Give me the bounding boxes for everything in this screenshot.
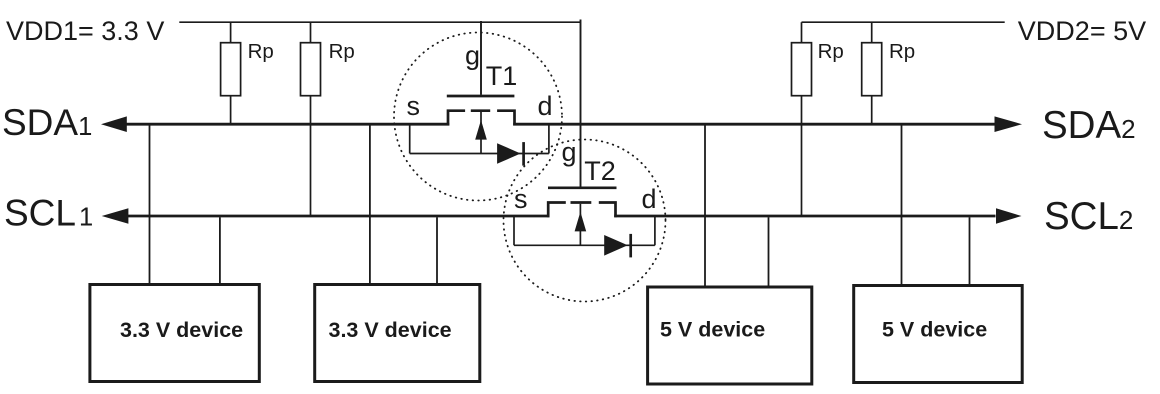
device box 4 (5 V device) (854, 286, 1023, 383)
svg-text:T2: T2 (584, 156, 616, 186)
wire SCL1 to device box 1 (219, 217, 221, 284)
svg-text:SDA2: SDA2 (1042, 104, 1136, 147)
wire VDD2 to resistor R4 top (871, 22, 873, 43)
svg-text:d: d (642, 184, 657, 214)
arrow SDA1 (left) (101, 116, 127, 132)
svg-text:d: d (538, 91, 553, 121)
wire R4 bottom to SDA2 (871, 96, 873, 125)
wire VDD1 rail (179, 21, 581, 23)
svg-text:VDD2= 5V: VDD2= 5V (1018, 16, 1146, 46)
wire SDA1 to device box 2 (369, 126, 371, 285)
device box 3 (5 V device) (648, 287, 812, 384)
diode D1 (T1 body diode) (497, 143, 520, 164)
svg-text:3.3 V device: 3.3 V device (120, 318, 243, 342)
wire VDD2 rail (802, 21, 1005, 23)
device box 1 (3.3 V device) (90, 285, 259, 382)
arrow SCL1 (left) (102, 208, 129, 224)
svg-text:5 V device: 5 V device (660, 318, 765, 342)
wire R2 bottom through SDA1 to SCL1 (310, 96, 312, 216)
wire T1 body left vertical (409, 124, 411, 153)
wire T1 gate to VDD1 rail (480, 21, 482, 95)
arrow SDA2 (right) (995, 116, 1023, 132)
wire VDD2 to resistor R3 top (801, 22, 803, 43)
transistor T2 substrate arrow (575, 212, 587, 232)
resistor Rp (R1, SDA1 pull-up) (221, 43, 241, 96)
wire SCL bus left segment (128, 215, 550, 218)
svg-text:g: g (562, 137, 577, 167)
svg-text:Rp: Rp (248, 40, 274, 63)
transistor T1 gate plate (447, 95, 515, 98)
diode D1 cathode bar (522, 142, 525, 166)
transistor T2 source bracket and channel segment (548, 203, 566, 218)
svg-text:VDD1= 3.3 V: VDD1= 3.3 V (6, 16, 164, 46)
transistor T2 substrate wire (579, 204, 581, 246)
wire T2 gate to VDD1 rail (580, 20, 582, 187)
wire SDA bus right segment (513, 123, 995, 126)
svg-text:Rp: Rp (329, 40, 355, 63)
wire SDA1 to device box 1 (149, 126, 151, 285)
resistor Rp (R2, SCL1 pull-up) (301, 43, 321, 96)
transistor T1 middle channel segment (471, 109, 490, 112)
wire T1 body right vertical (548, 124, 550, 153)
wire T2 body left vertical (513, 216, 515, 245)
wire T2 body line (514, 244, 655, 246)
transistor T1 source bracket and channel segment (448, 111, 465, 126)
wire SDA2 to device box 3 (704, 126, 706, 287)
svg-text:s: s (407, 91, 421, 121)
device box 2 (3.3 V device) (315, 285, 480, 382)
transistor T1 dotted circle (394, 33, 562, 201)
wire SDA2 to device box 4 (901, 126, 903, 286)
wire SCL2 to device box 3 (768, 217, 770, 286)
resistor Rp (R3, SCL2 pull-up) (792, 43, 812, 96)
wire SCL2 to device box 4 (969, 217, 971, 285)
transistor T2 gate plate (548, 186, 617, 189)
transistor T1 substrate wire (480, 112, 482, 154)
svg-text:SDA1: SDA1 (2, 102, 92, 143)
wire VDD1 to resistor R2 top (310, 22, 312, 43)
wire SCL1 to device box 2 (436, 217, 438, 284)
wire T1 body line (410, 153, 549, 155)
transistor T2 dotted circle (504, 140, 666, 302)
transistor T1 substrate arrow (475, 120, 487, 140)
transistor T2 middle channel segment (571, 201, 592, 204)
transistor T2 drain bracket and channel segment (599, 203, 616, 218)
svg-text:T1: T1 (486, 61, 518, 91)
svg-text:SCL2: SCL2 (1044, 195, 1133, 238)
wire SDA bus left segment (127, 123, 450, 126)
wire VDD1 to resistor R1 top (230, 22, 232, 43)
arrow SCL2 (right) (996, 208, 1022, 224)
wire T2 body right vertical (654, 216, 656, 245)
svg-text:g: g (465, 41, 480, 71)
svg-text:3.3 V device: 3.3 V device (329, 318, 452, 342)
svg-text:5 V device: 5 V device (882, 318, 987, 342)
resistor Rp (R4, SDA2 pull-up) (862, 43, 882, 96)
wire R1 bottom to SDA1 (230, 96, 232, 125)
diode D2 cathode bar (629, 234, 632, 258)
svg-text:SCL1: SCL1 (4, 193, 93, 234)
svg-text:Rp: Rp (889, 40, 915, 63)
wire SCL bus right segment (614, 215, 995, 218)
transistor T1 drain bracket and channel segment (497, 111, 514, 126)
wire R3 bottom through SDA2 to SCL2 (801, 96, 803, 216)
svg-text:Rp: Rp (818, 40, 844, 63)
svg-text:s: s (514, 184, 528, 214)
diode D2 (T2 body diode) (604, 235, 628, 256)
